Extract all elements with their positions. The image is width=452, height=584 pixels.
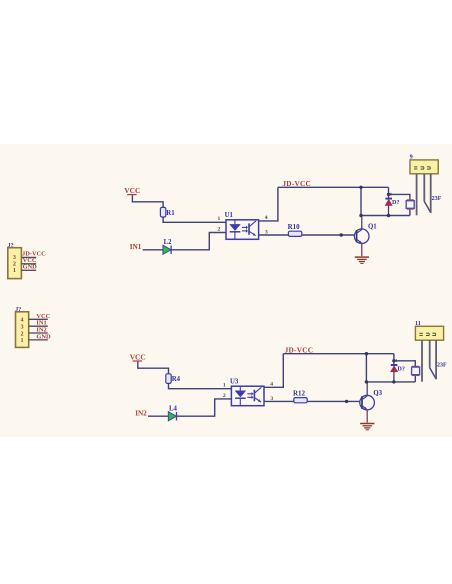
junction at D8 cathode xyxy=(392,359,395,362)
junction at Q1 base wire xyxy=(340,233,343,236)
pin number 2 of U3 xyxy=(223,393,226,399)
wire R10 to Q1 base xyxy=(302,234,355,236)
svg-text:1: 1 xyxy=(20,337,23,344)
pin number 4 of U3 xyxy=(270,381,273,387)
relay 11 pin (contact) xyxy=(435,340,437,379)
relay 9 pin marks xyxy=(414,167,430,169)
wire IN2 to LED L4 xyxy=(148,415,169,417)
label L4 xyxy=(169,406,178,413)
wire rail corner down to diode D7 xyxy=(388,187,390,194)
internal LED of U3 xyxy=(235,387,246,406)
wire JD-VCC rail to lower rail xyxy=(360,187,362,215)
wire R4 to U3 pin 1 xyxy=(169,383,232,388)
wire stub pin 2 xyxy=(21,263,36,265)
wire D8 cathode to relay coil xyxy=(394,361,415,367)
relay coil (channel 1) xyxy=(406,200,414,209)
svg-text:U3: U3 xyxy=(230,378,239,385)
wire stub pin 4 xyxy=(29,318,48,320)
svg-text:23F: 23F xyxy=(432,196,442,202)
wire rail corner down to diode D8 xyxy=(393,354,395,361)
relay 9 pin (contact) xyxy=(430,174,432,213)
pin number 2 of J? xyxy=(13,260,16,267)
resistor R10 xyxy=(288,231,301,236)
phototransistor of U1 xyxy=(249,221,256,236)
resistor R12 xyxy=(294,398,307,403)
relay coil (channel 2) xyxy=(412,367,420,376)
wire R1 to U1 pin 1 xyxy=(163,217,226,222)
wire Q1 emitter to ground xyxy=(361,243,363,256)
label D? of diode D8 xyxy=(397,366,405,373)
svg-text:GND: GND xyxy=(36,333,51,340)
label 23F (channel 2) xyxy=(437,362,447,368)
svg-text:U1: U1 xyxy=(225,212,234,219)
wire IN1 to LED L2 xyxy=(143,249,164,251)
pin number 1 of input header xyxy=(20,337,23,344)
wire Q1 collector to rail xyxy=(361,216,363,230)
pin number 4 of input header xyxy=(20,317,23,324)
optocoupler U1 body xyxy=(226,220,259,240)
pin number 2 of U1 xyxy=(218,227,221,233)
optocoupler U3 body xyxy=(231,386,264,406)
internal LED of U1 xyxy=(230,220,241,239)
wire LED L4 to U3 pin 2 xyxy=(177,399,231,416)
label D? of diode D7 xyxy=(392,199,400,206)
pin number 3 of input header xyxy=(20,324,23,331)
wire lower rail (collector / diode anode / coil) xyxy=(361,215,410,217)
junction on JD-VCC rail xyxy=(359,186,362,189)
svg-text:VCC: VCC xyxy=(130,352,146,361)
svg-text:4: 4 xyxy=(270,381,273,387)
wire from VCC to resistor R4 xyxy=(138,362,169,374)
relay 11 pin (switch arm) xyxy=(430,340,436,379)
label 23F (channel 1) xyxy=(432,196,442,202)
net label IN1 xyxy=(130,243,142,251)
pin number 3 of J? xyxy=(13,254,16,261)
diode D8 (flyback) xyxy=(391,359,398,382)
LED L2 xyxy=(163,245,171,254)
pin number 1 of J? xyxy=(13,267,16,274)
wire JD-VCC rail xyxy=(278,186,389,188)
svg-text:GND: GND xyxy=(23,263,38,270)
wire stub pin 1 xyxy=(29,339,48,341)
svg-text:D?: D? xyxy=(397,366,405,373)
label U1 xyxy=(225,212,234,219)
label J? of 4-pin header xyxy=(15,307,21,313)
relay 9 pin (switch arm) xyxy=(424,174,430,213)
wire D7 cathode to relay coil xyxy=(389,194,410,200)
svg-text:9: 9 xyxy=(410,154,413,161)
svg-text:Q1: Q1 xyxy=(368,224,377,231)
label R4 xyxy=(172,376,181,383)
svg-text:2: 2 xyxy=(223,393,226,399)
svg-text:R4: R4 xyxy=(172,376,181,383)
wire from VCC to resistor R1 xyxy=(132,195,163,207)
svg-text:3: 3 xyxy=(270,396,273,402)
wire U3 pin 4 to JD-VCC rail xyxy=(264,354,283,388)
net label JD-VCC xyxy=(285,346,314,355)
svg-text:L4: L4 xyxy=(169,406,178,413)
svg-text:2: 2 xyxy=(218,227,221,233)
svg-text:1: 1 xyxy=(223,383,226,389)
coupling arrows of U3 xyxy=(247,392,253,399)
wire Q3 collector to rail xyxy=(366,382,368,396)
net label GND on input header xyxy=(36,333,51,340)
diode D7 (flyback) xyxy=(385,193,392,216)
phototransistor of U3 xyxy=(254,387,261,402)
net label IN2 xyxy=(135,409,147,417)
power port VCC (channel 2) xyxy=(130,352,146,361)
net label JD-VCC on J? xyxy=(22,250,46,257)
wire relay coil to lower rail xyxy=(409,210,411,216)
pin number 4 of U1 xyxy=(265,215,268,221)
label 11 of relay xyxy=(415,320,421,327)
svg-text:1: 1 xyxy=(218,216,221,222)
resistor R4 xyxy=(166,374,171,384)
svg-text:IN1: IN1 xyxy=(130,243,142,251)
junction at D7 cathode xyxy=(387,193,390,196)
svg-text:L2: L2 xyxy=(164,239,173,246)
net label GND on J? xyxy=(23,263,38,270)
wire LED L2 to U1 pin 2 xyxy=(172,233,226,250)
svg-text:4: 4 xyxy=(265,215,268,221)
label J? of 3-pin header xyxy=(8,243,14,249)
wire stub pin 3 xyxy=(29,325,48,327)
relay 11 pin marks xyxy=(419,333,435,335)
power port VCC (channel 1) xyxy=(124,186,140,195)
wire JD-VCC rail xyxy=(283,353,394,355)
label 9 of relay xyxy=(410,154,413,161)
connector J? (3-pin power header) xyxy=(8,248,22,279)
coupling arrows of U1 xyxy=(242,226,248,233)
pin number 3 of U1 xyxy=(265,229,268,235)
junction at D8 anode xyxy=(392,380,395,383)
transistor Q3 xyxy=(360,395,375,410)
junction at Q3 base wire xyxy=(345,400,348,403)
relay 9 pin (common) xyxy=(416,174,418,216)
svg-text:Q3: Q3 xyxy=(373,390,382,397)
junction on JD-VCC rail xyxy=(365,352,368,355)
label U3 xyxy=(230,378,239,385)
resistor R1 xyxy=(160,207,165,217)
junction at D7 anode xyxy=(387,214,390,217)
svg-text:VCC: VCC xyxy=(124,186,140,195)
ground symbol (channel 1) xyxy=(355,257,369,263)
wire JD-VCC rail to lower rail xyxy=(365,354,367,382)
relay 11 pin (common) xyxy=(421,340,423,382)
pin number 1 of U3 xyxy=(223,383,226,389)
svg-text:11: 11 xyxy=(415,320,421,327)
label R12 xyxy=(293,389,306,397)
junction on lower rail xyxy=(365,380,368,383)
net label JD-VCC xyxy=(282,179,311,188)
ground symbol (channel 2) xyxy=(360,424,374,430)
wire U1 pin 3 to R10 xyxy=(259,234,289,236)
svg-text:R12: R12 xyxy=(293,389,306,397)
LED L4 xyxy=(168,412,176,421)
label R1 xyxy=(166,210,175,217)
pin number 3 of U3 xyxy=(270,396,273,402)
svg-text:J?: J? xyxy=(8,243,14,249)
net label VCC on input header xyxy=(36,313,50,320)
net label IN2 on input header xyxy=(36,327,46,334)
pin number 2 of input header xyxy=(20,330,23,337)
wire stub pin 2 xyxy=(29,332,48,334)
junction on lower rail xyxy=(359,214,362,217)
label Q3 xyxy=(373,390,382,397)
svg-text:R10: R10 xyxy=(288,223,301,231)
wire U1 pin 4 to JD-VCC rail xyxy=(259,187,278,221)
svg-text:IN2: IN2 xyxy=(135,409,147,417)
svg-text:J?: J? xyxy=(15,307,21,313)
svg-text:23F: 23F xyxy=(437,362,447,368)
svg-text:R1: R1 xyxy=(166,210,175,217)
transistor Q1 xyxy=(354,229,369,244)
wire stub pin 1 xyxy=(21,269,36,271)
svg-text:3: 3 xyxy=(265,229,268,235)
wire R12 to Q3 base xyxy=(307,400,360,402)
relay 11 body xyxy=(415,326,443,340)
label Q1 xyxy=(368,224,377,231)
wire U3 pin 3 to R12 xyxy=(264,400,294,402)
svg-text:1: 1 xyxy=(13,267,16,274)
connector J? (4-pin input header) xyxy=(16,312,29,348)
wire stub pin 3 xyxy=(21,256,36,258)
net label IN1 on input header xyxy=(36,320,46,327)
wire Q3 emitter to ground xyxy=(366,410,368,423)
wire relay coil to lower rail xyxy=(414,376,416,382)
relay 9 body xyxy=(410,160,438,174)
svg-text:D?: D? xyxy=(392,199,400,206)
wire lower rail (collector / diode anode / coil) xyxy=(366,381,415,383)
net label VCC on J? xyxy=(23,257,37,264)
label L2 xyxy=(164,239,173,246)
pin number 1 of U1 xyxy=(218,216,221,222)
label R10 xyxy=(288,223,301,231)
